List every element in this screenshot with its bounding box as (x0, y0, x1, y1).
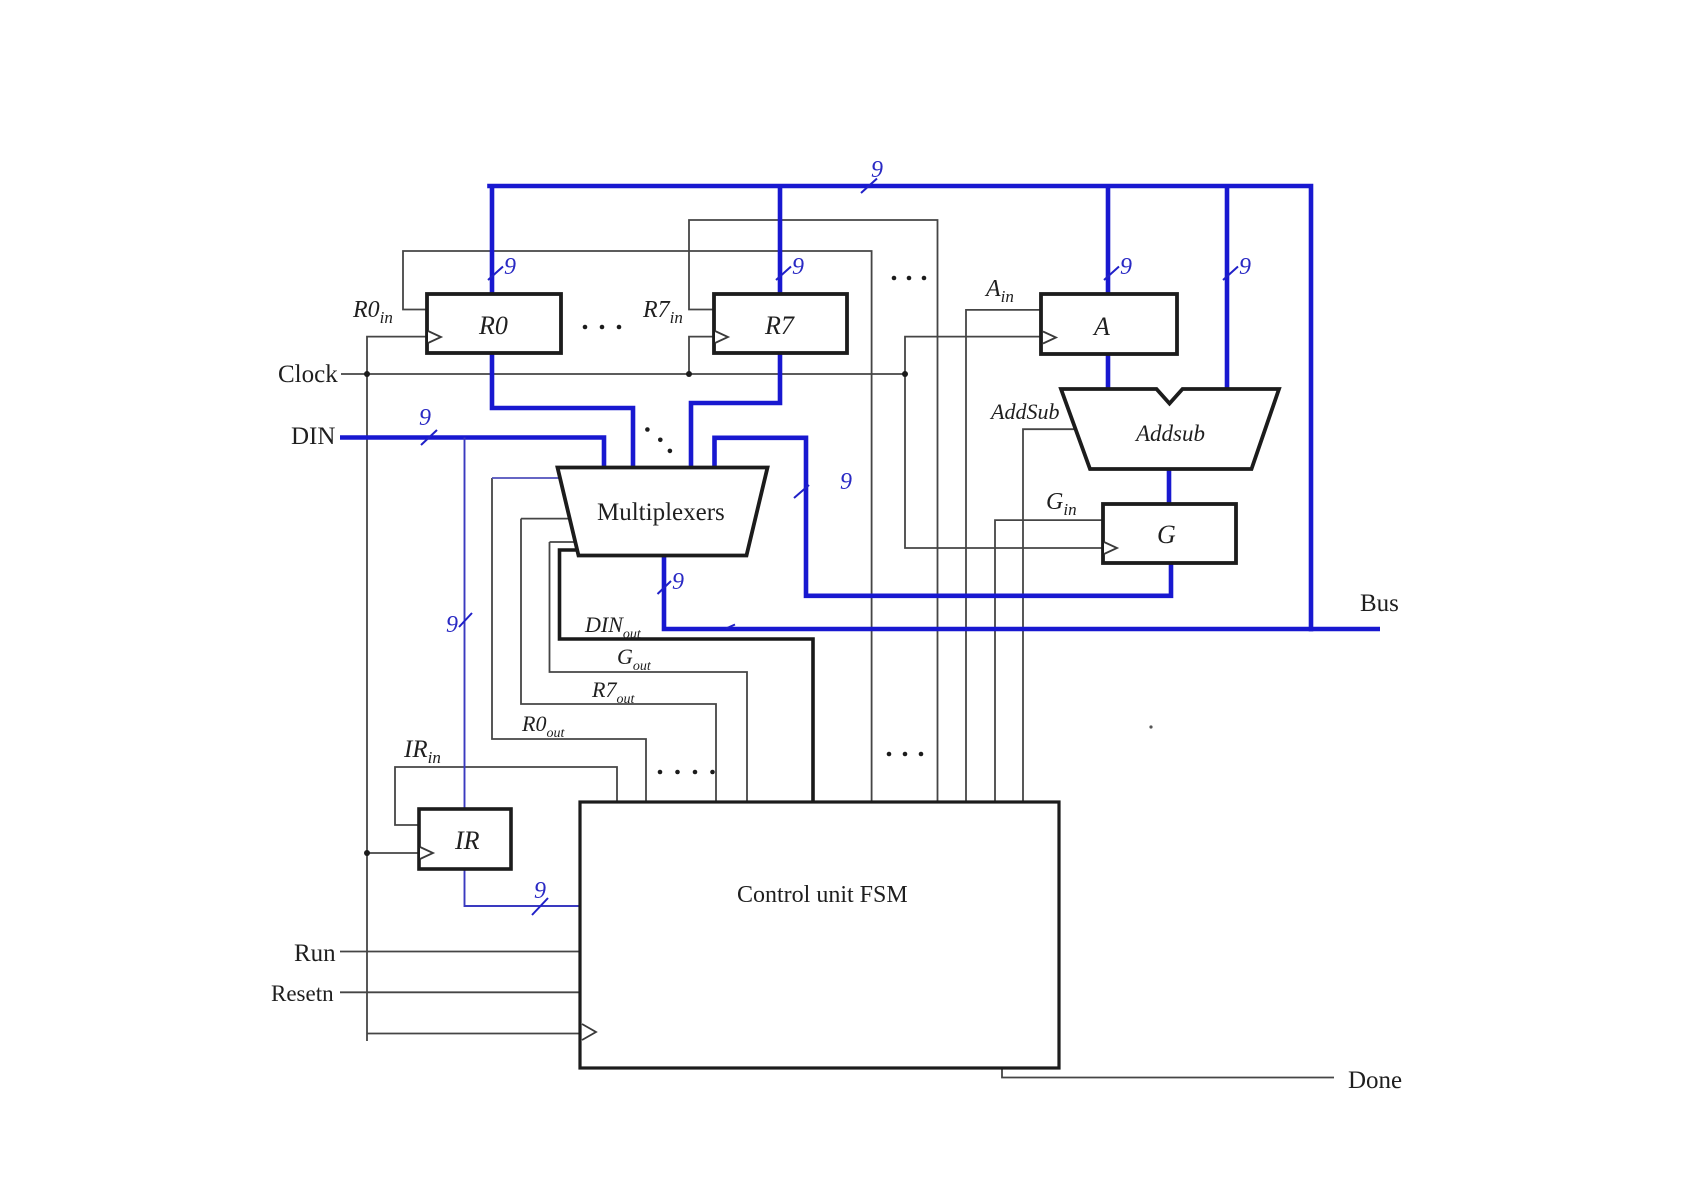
svg-text:Done: Done (1348, 1067, 1402, 1094)
svg-text:9: 9 (446, 612, 458, 638)
svg-text:Clock: Clock (278, 361, 338, 388)
svg-text:Multiplexers: Multiplexers (597, 499, 725, 526)
svg-text:DIN: DIN (291, 423, 335, 450)
svg-text:Addsub: Addsub (1134, 421, 1205, 446)
svg-text:9: 9 (672, 569, 684, 595)
svg-text:9: 9 (871, 157, 883, 183)
svg-text:G: G (1157, 520, 1176, 549)
svg-text:9: 9 (1120, 254, 1132, 280)
svg-text:9: 9 (419, 405, 431, 431)
svg-text:Control unit FSM: Control unit FSM (737, 882, 908, 908)
svg-text:R7: R7 (764, 311, 795, 340)
svg-text:9: 9 (1239, 254, 1251, 280)
svg-text:Run: Run (294, 940, 336, 967)
svg-text:Resetn: Resetn (271, 981, 334, 1006)
svg-text:9: 9 (534, 878, 546, 904)
svg-text:9: 9 (504, 254, 516, 280)
svg-text:9: 9 (792, 254, 804, 280)
svg-text:Bus: Bus (1360, 590, 1399, 617)
svg-text:IR: IR (454, 826, 480, 855)
svg-text:AddSub: AddSub (989, 399, 1059, 424)
svg-text:A: A (1092, 312, 1110, 341)
svg-text:9: 9 (840, 469, 852, 495)
svg-text:R0: R0 (478, 311, 508, 340)
